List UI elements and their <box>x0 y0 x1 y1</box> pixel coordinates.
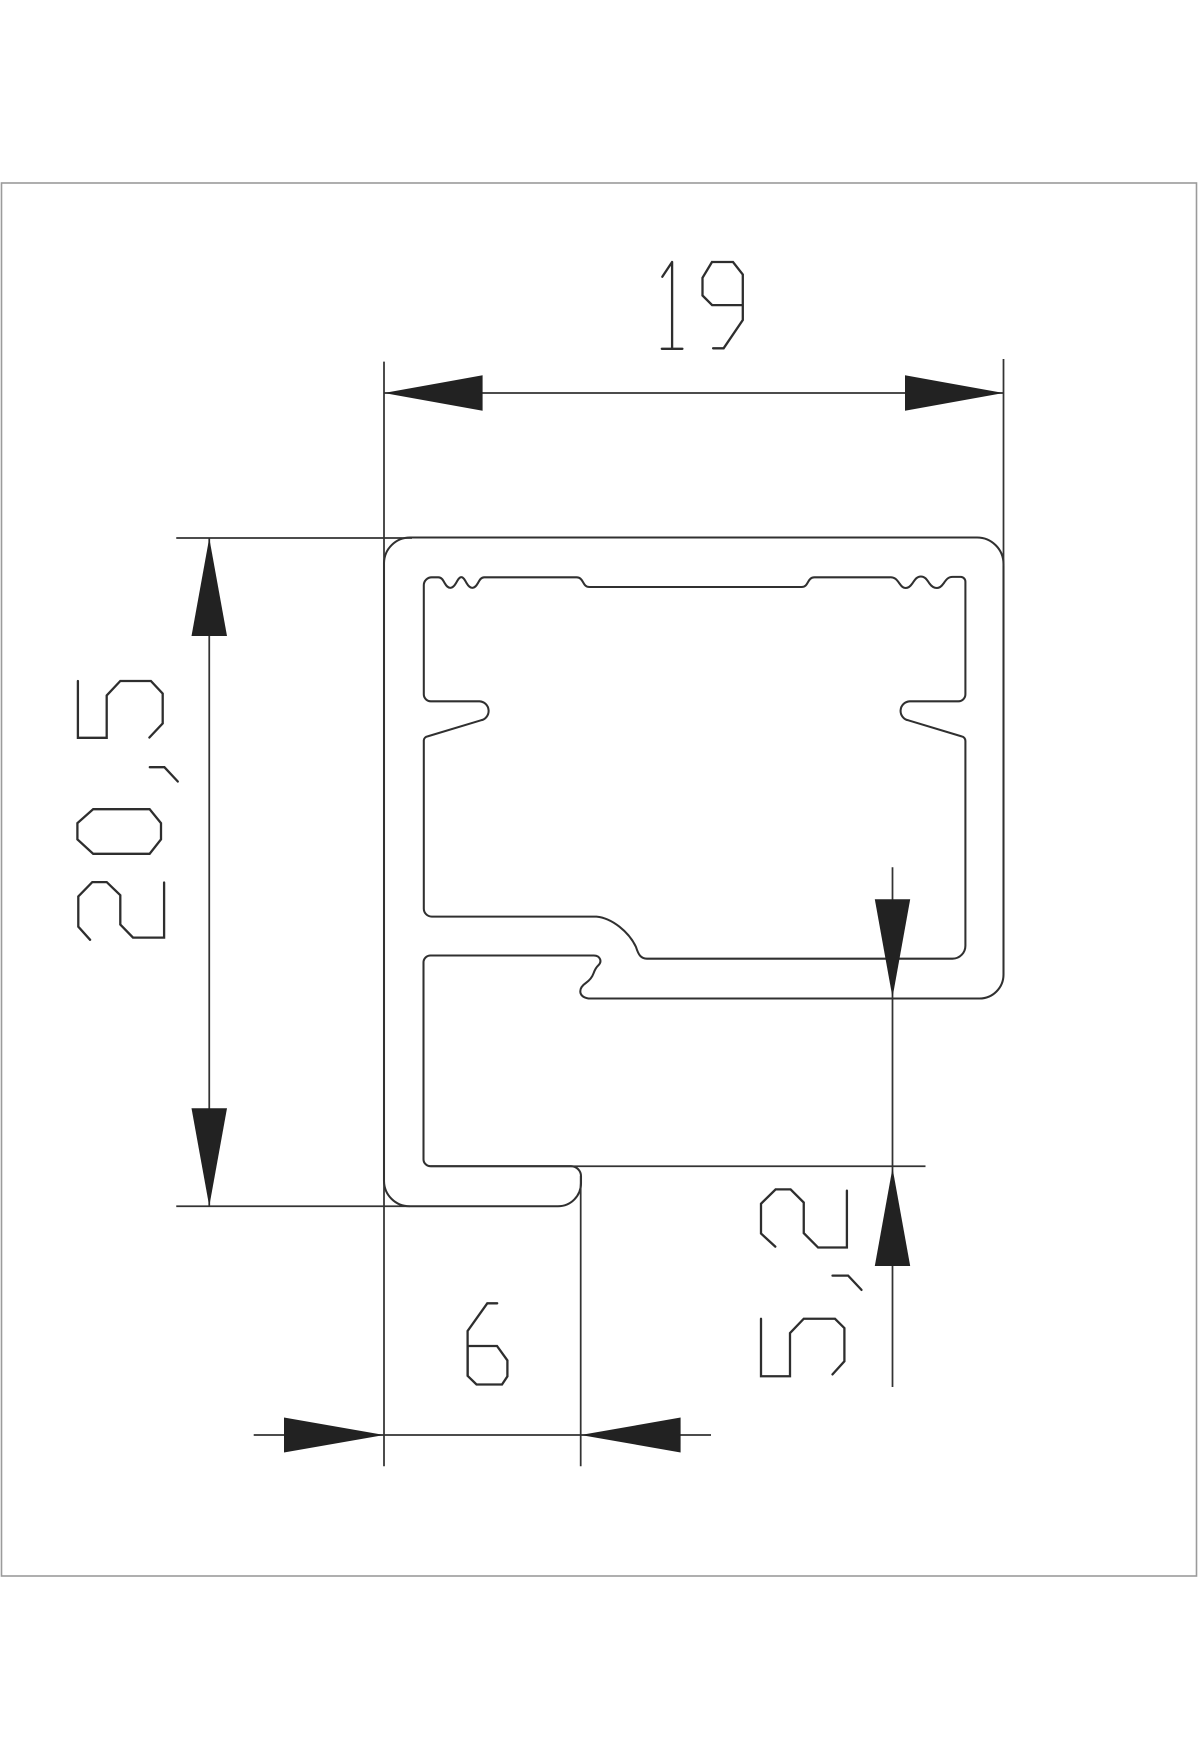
text 19 digit 9 <box>703 262 743 348</box>
arrowhead 20,5 top <box>192 538 228 636</box>
text 20,5 digit 5 <box>78 681 163 738</box>
text 19 digit 1 <box>662 262 683 349</box>
profile outer contour <box>384 538 1004 1207</box>
arrowhead 5,2 up <box>875 1168 910 1266</box>
arrowhead 19 right <box>905 375 1004 410</box>
arrowhead 6 right <box>581 1418 681 1453</box>
dim 19 extension line right <box>1003 359 1005 566</box>
text 20,5 digit 0 <box>77 809 161 854</box>
dim 6 extension line right <box>580 1176 582 1466</box>
text 6 digit 6 <box>468 1303 508 1384</box>
text 20,5 digit 2 <box>78 882 164 940</box>
dim 19 dimension line <box>384 392 1004 394</box>
arrowhead 19 left <box>384 375 483 410</box>
arrowhead 6 left <box>284 1418 384 1453</box>
dim 20,5 extension line bottom <box>176 1205 410 1207</box>
dim 5,2 extension line <box>431 1165 926 1167</box>
text 20,5 comma <box>150 767 178 781</box>
profile inner cavity <box>424 577 966 959</box>
dim 19 extension line left <box>383 362 385 1467</box>
arrowhead 5,2 down <box>875 899 910 997</box>
border frame <box>2 183 1197 1576</box>
text 5,2 digit 5 <box>761 1319 844 1377</box>
arrowhead 20,5 bottom <box>192 1108 228 1206</box>
dim 6 dimension line <box>254 1434 711 1436</box>
dim 5,2 dimension line <box>892 867 894 1387</box>
text 5,2 digit 2 <box>761 1189 847 1247</box>
dim 20,5 extension line top <box>176 537 412 539</box>
dim 20,5 dimension line <box>208 538 210 1206</box>
text 5,2 comma <box>833 1276 862 1290</box>
